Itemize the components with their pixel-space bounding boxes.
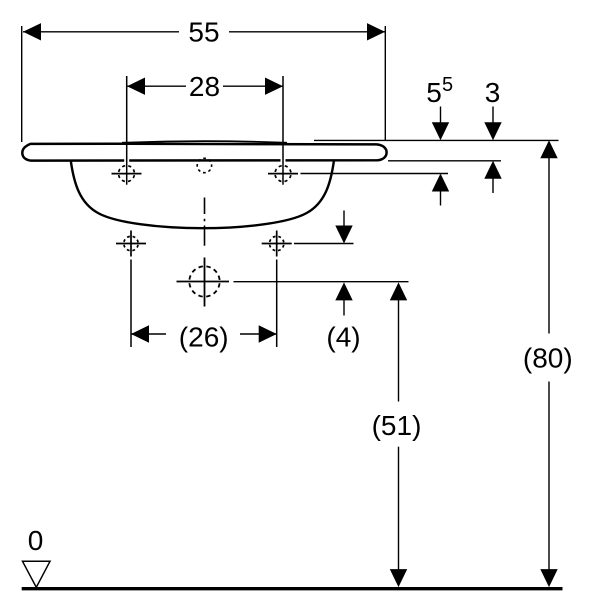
svg-text:5: 5 (442, 74, 453, 96)
svg-text:28: 28 (189, 71, 220, 102)
svg-text:5: 5 (426, 77, 442, 108)
svg-text:(4): (4) (326, 321, 360, 352)
svg-text:(51): (51) (372, 410, 422, 441)
svg-text:0: 0 (28, 525, 44, 556)
svg-text:(80): (80) (523, 343, 573, 374)
svg-text:55: 55 (188, 17, 219, 48)
svg-text:(26): (26) (179, 321, 229, 352)
svg-text:3: 3 (485, 77, 501, 108)
